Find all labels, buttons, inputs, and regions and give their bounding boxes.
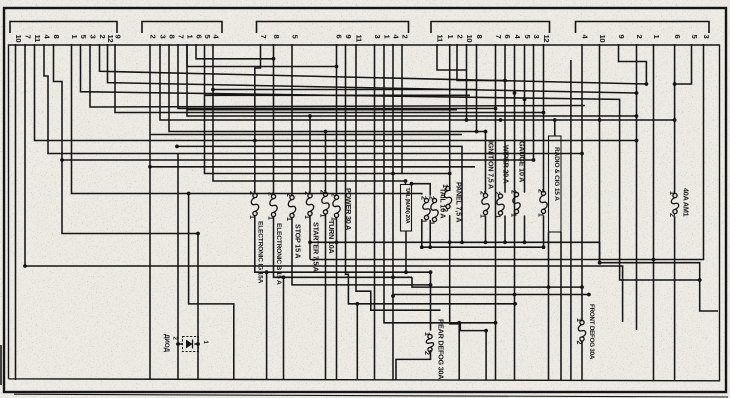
svg-text:TAIL (MAIN) 20A: TAIL (MAIN) 20A bbox=[404, 188, 410, 224]
wire C3-1 bbox=[384, 44, 496, 323]
wire C3-6 bbox=[336, 44, 338, 195]
wire C2-2 bbox=[149, 44, 151, 380]
wire C1-5 bbox=[81, 44, 700, 280]
connector C2 bracket bbox=[142, 22, 222, 34]
svg-text:2: 2 bbox=[668, 213, 675, 217]
fuse FRONT DEFOG bbox=[578, 320, 585, 341]
connector C4 pin numbers bbox=[436, 35, 552, 44]
fuse POWER bbox=[333, 195, 340, 217]
wire POWER bottom bbox=[336, 218, 338, 380]
connector C3 bracket bbox=[257, 22, 409, 34]
svg-text:1: 1 bbox=[303, 215, 310, 219]
wire C1-10 bbox=[15, 44, 17, 380]
wire WIPER bottom bbox=[504, 216, 506, 243]
svg-text:3: 3 bbox=[159, 35, 168, 39]
wire dropper x486 bbox=[485, 331, 487, 380]
wire C4-1 bbox=[449, 44, 451, 191]
fuse TURN bbox=[322, 192, 329, 214]
connector C2 pin numbers bbox=[149, 35, 221, 40]
wire dropper x440 bbox=[439, 379, 441, 381]
diode D1 bbox=[172, 337, 209, 352]
fuse AM1 bbox=[671, 193, 678, 213]
svg-text:POWER 30 A: POWER 30 A bbox=[344, 188, 353, 230]
svg-text:12: 12 bbox=[542, 35, 551, 43]
svg-text:2: 2 bbox=[419, 196, 426, 200]
wire C1-9 bbox=[115, 44, 544, 113]
wire fuse feed RADIO bbox=[543, 113, 545, 193]
svg-text:1: 1 bbox=[419, 219, 426, 223]
wire bus defog feed bbox=[310, 242, 600, 262]
wire line y160 bbox=[62, 159, 534, 161]
wire C5-3 bbox=[654, 44, 704, 260]
svg-text:2: 2 bbox=[285, 193, 292, 197]
svg-text:1: 1 bbox=[493, 215, 500, 219]
svg-text:PANEL 7,5 A: PANEL 7,5 A bbox=[455, 182, 464, 222]
wire TAIL1 bottom bbox=[421, 219, 423, 247]
svg-text:7: 7 bbox=[494, 35, 503, 39]
connector C1 bracket bbox=[10, 22, 117, 34]
svg-text:7: 7 bbox=[24, 35, 33, 39]
fuse STARTER bbox=[306, 194, 313, 216]
wire C2-5 bbox=[205, 44, 450, 174]
svg-text:2: 2 bbox=[635, 35, 644, 39]
wire C1-2 bbox=[100, 44, 647, 84]
svg-text:TURN 10A: TURN 10A bbox=[327, 220, 336, 254]
wire C4-10 bbox=[466, 44, 468, 120]
svg-text:FRONT DEFOG 30A: FRONT DEFOG 30A bbox=[588, 304, 595, 360]
wire C4-2 bbox=[457, 44, 505, 81]
wire bus y259 bbox=[310, 259, 654, 261]
fuse IGNITION bbox=[482, 193, 489, 214]
svg-text:1: 1 bbox=[329, 217, 336, 221]
wire C5-5 bbox=[675, 44, 692, 84]
svg-text:2: 2 bbox=[441, 208, 448, 212]
svg-text:1: 1 bbox=[478, 214, 485, 218]
wire C3-3 bbox=[374, 44, 376, 380]
svg-text:2: 2 bbox=[303, 191, 310, 195]
wire fuse feed POWER bbox=[187, 44, 337, 67]
fuse ELECTRONIC B bbox=[270, 194, 277, 216]
fuse STOP bbox=[288, 195, 295, 217]
wire C1-1 bbox=[72, 44, 422, 195]
fuse REAR DEFOG bbox=[426, 334, 433, 351]
wire dropper x283 bbox=[283, 277, 285, 380]
wire bus ELECTRONIC-IG bottom bbox=[255, 216, 431, 273]
fuse ELECTRONIC IG bbox=[251, 193, 258, 215]
wire GAUGE bottom bbox=[524, 216, 526, 243]
svg-text:TAIL 10 A: TAIL 10 A bbox=[439, 188, 448, 218]
wire line y166 bbox=[150, 166, 475, 168]
fuse PANEL bbox=[444, 186, 451, 208]
box around RADIO label bbox=[549, 136, 562, 232]
svg-text:2: 2 bbox=[493, 192, 500, 196]
wire diode left bbox=[177, 154, 179, 381]
svg-text:3: 3 bbox=[89, 35, 98, 39]
wire C3-7 bbox=[255, 44, 261, 193]
svg-text:2: 2 bbox=[509, 190, 516, 194]
wire C4-8 bbox=[476, 44, 478, 132]
wire FRONT-DEFOG bottom bbox=[581, 341, 583, 380]
fuse WIPER bbox=[497, 194, 504, 215]
svg-text:3: 3 bbox=[532, 35, 541, 39]
wire RADIO bottom bbox=[543, 216, 545, 248]
svg-text:11: 11 bbox=[33, 35, 42, 44]
wire bus TAIL bottoms bbox=[422, 246, 544, 248]
svg-text:1: 1 bbox=[285, 217, 292, 221]
svg-text:9: 9 bbox=[114, 35, 123, 39]
wire REAR-DEFOG feed bbox=[430, 272, 432, 330]
wire fuse feed ELECTRONIC-B bbox=[273, 59, 275, 195]
wire REAR-DEFOG bottom bbox=[396, 350, 431, 380]
svg-text:1: 1 bbox=[536, 213, 543, 217]
connector C5 bracket bbox=[576, 22, 710, 34]
wire TAIL2 bottom bbox=[429, 220, 431, 247]
wire C1-7 bbox=[25, 44, 623, 322]
svg-text:1: 1 bbox=[266, 216, 273, 220]
svg-text:8: 8 bbox=[52, 35, 61, 39]
svg-text:10: 10 bbox=[598, 35, 607, 43]
svg-text:8: 8 bbox=[475, 35, 484, 39]
wire C3-4 bbox=[392, 44, 394, 380]
svg-text:1: 1 bbox=[427, 221, 434, 225]
svg-text:1: 1 bbox=[668, 191, 675, 195]
svg-text:2: 2 bbox=[329, 193, 336, 197]
svg-text:2: 2 bbox=[98, 35, 107, 39]
wire dropper x459 bbox=[458, 323, 460, 380]
wire bus ELECTRONIC-B bottom bbox=[274, 217, 413, 278]
wire PANEL bottom bbox=[450, 215, 486, 331]
svg-text:2: 2 bbox=[478, 191, 485, 195]
wire C1-12 bbox=[108, 44, 637, 93]
svg-text:2: 2 bbox=[423, 351, 430, 355]
wire C3-9 bbox=[346, 44, 516, 304]
wire C5-10 bbox=[600, 44, 719, 311]
wire fuse feed TAILMAIN-box bbox=[405, 181, 407, 185]
wire C4-11 bbox=[437, 44, 467, 70]
wire C5-6b bbox=[674, 216, 676, 380]
wire line y146 bbox=[177, 146, 462, 242]
svg-text:40A AM1: 40A AM1 bbox=[682, 188, 691, 217]
wire C3-8 bbox=[273, 44, 275, 59]
svg-text:2: 2 bbox=[427, 196, 434, 200]
connector C4 bracket bbox=[431, 22, 550, 34]
wire fuse feed IGNITION bbox=[485, 132, 487, 194]
svg-text:1: 1 bbox=[248, 215, 255, 219]
connector C5 pin numbers bbox=[581, 35, 712, 43]
wire dropper x266 bbox=[266, 272, 268, 380]
wire C1-11 bbox=[35, 44, 637, 141]
wire C5-4 bbox=[581, 44, 583, 287]
wire bus STOP bottom bbox=[292, 218, 431, 285]
svg-text:3: 3 bbox=[702, 35, 711, 39]
svg-text:7: 7 bbox=[259, 35, 268, 39]
wire C4-7 bbox=[495, 44, 497, 380]
wire line y134 bbox=[150, 134, 462, 136]
svg-text:IGNITION 7,5 A: IGNITION 7,5 A bbox=[487, 141, 496, 189]
wire dropper x357 bbox=[356, 304, 358, 380]
fuse TAIL bbox=[423, 198, 430, 219]
wire C5-1 bbox=[653, 44, 655, 380]
wire fuse feed STARTER bbox=[309, 116, 311, 194]
svg-text:1: 1 bbox=[423, 332, 430, 336]
wire C2-1 bbox=[187, 44, 637, 116]
fuse TAIL10 bbox=[431, 198, 438, 221]
wire C2-8 bbox=[169, 44, 486, 132]
svg-text:ELECTRONIC B 15 A: ELECTRONIC B 15 A bbox=[275, 223, 282, 285]
wire C4-6 bbox=[504, 44, 506, 193]
svg-text:ELECTRONIC IG 15A: ELECTRONIC IG 15A bbox=[256, 221, 263, 284]
wire line y294 bbox=[393, 294, 589, 296]
svg-text:10: 10 bbox=[465, 35, 474, 43]
svg-text:2: 2 bbox=[456, 35, 465, 39]
svg-text:7: 7 bbox=[177, 35, 186, 39]
svg-text:9: 9 bbox=[344, 35, 353, 39]
svg-text:6: 6 bbox=[335, 35, 344, 39]
wire line y109 bbox=[187, 109, 457, 111]
wire C1-8 bbox=[54, 44, 199, 234]
wire RADIO boxright down bbox=[560, 232, 562, 380]
wire bus STARTER bottom bbox=[309, 216, 311, 260]
wire C4-5 bbox=[524, 44, 526, 193]
wire C1-3 bbox=[90, 44, 585, 107]
wire C2-6 bbox=[196, 44, 274, 59]
wire FRONT-DEFOG feed bbox=[581, 287, 583, 320]
svg-text:9: 9 bbox=[617, 35, 626, 39]
wire dropper x571 bbox=[570, 60, 572, 380]
wire dropper x188 bbox=[189, 194, 234, 381]
wire C5-9 bbox=[619, 44, 647, 84]
wire C3-11 bbox=[356, 44, 440, 310]
svg-text:REAR DEFOG 30A: REAR DEFOG 30A bbox=[437, 319, 446, 379]
svg-text:WIPER 20 A: WIPER 20 A bbox=[502, 145, 511, 183]
svg-text:2: 2 bbox=[401, 35, 410, 39]
svg-text:1: 1 bbox=[318, 214, 325, 218]
svg-text:2: 2 bbox=[266, 192, 273, 196]
svg-text:11: 11 bbox=[355, 35, 364, 44]
svg-text:ДИОД: ДИОД bbox=[163, 334, 170, 353]
svg-text:STOP 15 A: STOP 15 A bbox=[294, 224, 303, 258]
wire C5-2 bbox=[636, 44, 638, 330]
wire fuse feed TURN bbox=[325, 132, 327, 193]
svg-text:11: 11 bbox=[436, 35, 445, 44]
wire C2-4 bbox=[213, 44, 406, 181]
wire C2-3 bbox=[160, 44, 675, 120]
wire C4-3 bbox=[533, 44, 535, 160]
wire bus FRONT-DEFOG bbox=[412, 277, 582, 287]
svg-text:RADIO & CIG 15 A: RADIO & CIG 15 A bbox=[553, 147, 560, 201]
wire line y89 bbox=[213, 89, 477, 91]
connector C3 pin numbers bbox=[259, 35, 410, 44]
wire IGNITION bottom bbox=[485, 216, 487, 243]
wire fuse feed RADIO-boxtop bbox=[554, 120, 556, 136]
wire TURN bottom bbox=[325, 214, 327, 380]
wire dropper x198 bbox=[197, 234, 199, 381]
wire C5-6a bbox=[674, 44, 676, 194]
svg-text:6: 6 bbox=[195, 35, 204, 39]
fuse GAUGE bbox=[513, 192, 520, 213]
svg-text:2: 2 bbox=[248, 191, 255, 195]
fusible link TAIL(MAIN) box bbox=[401, 185, 412, 232]
svg-text:6: 6 bbox=[673, 35, 682, 39]
wire C3-2 bbox=[401, 44, 403, 174]
wire RADIO boxleft down bbox=[548, 232, 550, 380]
svg-text:2: 2 bbox=[536, 189, 543, 193]
svg-text:2: 2 bbox=[575, 341, 582, 345]
page edge line bbox=[14, 394, 728, 397]
wire C3-5 bbox=[291, 44, 293, 195]
svg-text:GAUGE 10 A: GAUGE 10 A bbox=[518, 141, 527, 182]
wire line y95 bbox=[205, 94, 471, 96]
wire TAILMAIN box bottom bbox=[405, 231, 407, 272]
svg-text:10: 10 bbox=[14, 35, 23, 43]
svg-text:1: 1 bbox=[441, 184, 448, 188]
wire C4-4 bbox=[514, 44, 516, 380]
svg-text:2: 2 bbox=[149, 35, 158, 39]
connector C1 pin numbers bbox=[14, 35, 123, 44]
wire diode right bbox=[195, 343, 199, 345]
svg-text:6: 6 bbox=[503, 35, 512, 39]
wire diode stub bbox=[178, 343, 183, 345]
svg-text:1: 1 bbox=[509, 213, 516, 217]
wire fuse feed TAIL2 bbox=[412, 184, 431, 196]
fuse RADIO bbox=[540, 191, 547, 213]
wire C1-4 bbox=[44, 44, 582, 154]
svg-text:1: 1 bbox=[575, 318, 582, 322]
scan smudge left edge bbox=[0, 345, 2, 385]
wire C4-12 bbox=[543, 44, 545, 113]
svg-text:STARTER 7,5 A: STARTER 7,5 A bbox=[312, 222, 321, 272]
wire C2-7 bbox=[178, 44, 496, 109]
svg-text:8: 8 bbox=[168, 35, 177, 39]
svg-text:2: 2 bbox=[318, 190, 325, 194]
svg-text:8: 8 bbox=[272, 35, 281, 39]
svg-text:3: 3 bbox=[373, 35, 382, 39]
